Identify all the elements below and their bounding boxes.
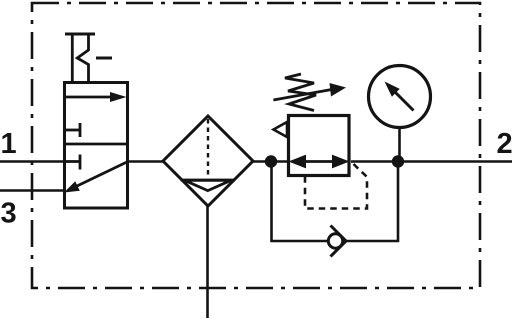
flow arrow, actuated position	[65, 96, 113, 99]
check valve	[328, 226, 346, 257]
wire: drain line	[206, 206, 209, 318]
junction node at regulator inlet	[265, 155, 277, 167]
blocked port, rest position	[65, 160, 79, 163]
double flow arrow	[295, 160, 343, 163]
adjustment arrow	[273, 89, 333, 100]
wire: regulator to port 2 outlet	[351, 160, 512, 163]
pilot line (dashed)	[305, 164, 367, 209]
wire: bypass left branch	[272, 162, 328, 242]
condensate triangle	[185, 180, 232, 190]
wire: port 3 exhaust	[0, 189, 63, 192]
needle	[395, 92, 414, 111]
pressure regulator	[273, 74, 367, 209]
wire: filter to regulator	[251, 160, 288, 163]
svg-text:2: 2	[497, 128, 512, 160]
separator baffle	[181, 179, 236, 182]
on-off valve (3/2 shut-off valve)	[64, 34, 128, 208]
blocked port, actuated position	[65, 129, 79, 132]
manual detent actuator	[65, 33, 95, 36]
adjustment spring	[285, 74, 316, 111]
wire: port 1 inlet	[0, 160, 63, 163]
svg-text:1: 1	[1, 128, 17, 160]
dashed center line	[207, 119, 209, 175]
exhaust arrow, rest position	[77, 162, 129, 187]
wire: gauge stem	[398, 127, 401, 162]
enclosure border (dash-dot frame)	[32, 3, 480, 288]
wire: bypass right branch	[346, 162, 399, 242]
relief vent triangle	[274, 122, 288, 137]
wire: valve to filter	[127, 160, 165, 163]
minus mark	[96, 57, 112, 60]
junction node at gauge/bypass	[392, 155, 404, 167]
svg-text:3: 3	[1, 198, 17, 230]
filter with water separator	[163, 116, 253, 318]
pressure gauge	[369, 66, 431, 162]
